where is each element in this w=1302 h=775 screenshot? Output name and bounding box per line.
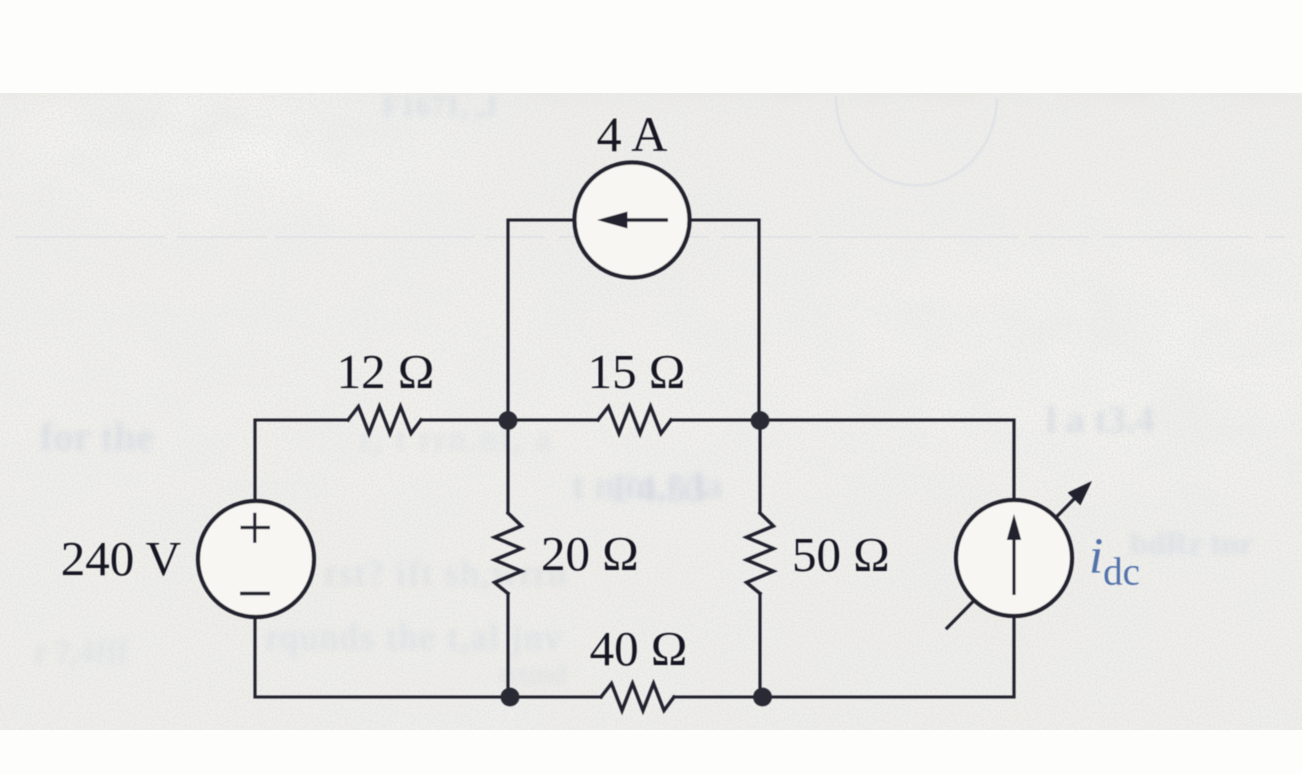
svg-text:l a t3.4: l a t3.4 xyxy=(1046,399,1155,441)
svg-text:bdRr tnr: bdRr tnr xyxy=(1130,525,1253,561)
resistor R2 15 ohm zigzag xyxy=(598,407,671,434)
svg-text:20 Ω: 20 Ω xyxy=(541,526,639,581)
svg-text:50 Ω: 50 Ω xyxy=(792,527,890,582)
voltage source V1 240V circle xyxy=(198,501,314,617)
plus sign of V1 xyxy=(241,513,271,543)
left-pointing arrow inside 4A source xyxy=(597,212,668,229)
current source I1 4A circle xyxy=(575,163,690,278)
svg-text:nu rst? ift sh,wrrn: nu rst? ift sh,wrrn xyxy=(274,553,568,593)
up-pointing arrow inside meter xyxy=(1007,514,1021,595)
svg-text:rqunds the t,al jnv: rqunds the t,al jnv xyxy=(266,617,564,657)
wire 4A source loop (up from node b, across, down to node c) xyxy=(508,220,759,420)
bleed-through line of previous figure xyxy=(15,236,1285,238)
svg-text:F1671, ,J: F1671, ,J xyxy=(382,90,498,123)
meter M1 circle xyxy=(956,500,1072,616)
bottom left junction dot xyxy=(501,688,520,707)
resistor R1 12 ohm zigzag xyxy=(348,407,421,434)
wire middle branch upper segment (node b down) xyxy=(506,420,509,513)
wire bottom rail left segment xyxy=(255,695,601,698)
bottom right junction dot xyxy=(753,688,772,707)
svg-text:240 V: 240 V xyxy=(61,531,181,586)
meter adjustment diagonal line xyxy=(947,499,1074,628)
svg-text:r ?,4fff: r ?,4fff xyxy=(35,634,129,671)
resistor R3 20 ohm zigzag xyxy=(495,513,522,594)
node b junction dot (top middle) xyxy=(499,411,518,430)
wire 50 ohm branch upper segment (node c down) xyxy=(758,420,761,513)
resistor R5 40 ohm zigzag xyxy=(601,684,674,711)
minus sign of V1 xyxy=(240,592,270,595)
svg-text:40 Ω: 40 Ω xyxy=(590,621,688,676)
wire top rail right segment (R2 to node c to meter branch corner) xyxy=(671,418,1014,421)
resistor R4 50 ohm zigzag xyxy=(747,513,774,594)
wire left branch through voltage source xyxy=(253,420,256,697)
node c junction dot (top right) xyxy=(751,411,770,430)
bleed-through circle arc of previous figure xyxy=(836,96,997,186)
svg-text:12 Ω: 12 Ω xyxy=(337,344,435,399)
bleed-through faint text artifacts xyxy=(35,90,1253,691)
svg-text:F4.53: F4.53 xyxy=(612,466,706,511)
wire middle branch lower segment xyxy=(506,594,509,698)
wire bottom rail right segment xyxy=(674,695,1014,698)
svg-text:15 Ω: 15 Ω xyxy=(588,344,686,399)
meter adjustment diagonal arrowhead xyxy=(1068,481,1092,505)
svg-text:4 A: 4 A xyxy=(597,106,668,162)
svg-text:for the: for the xyxy=(40,414,154,459)
wire right meter branch xyxy=(760,420,1014,697)
wire top rail left segment (node a to R1) xyxy=(255,418,348,421)
wire 50 ohm branch lower segment xyxy=(758,594,761,698)
wire top rail middle segment (R1 to node b to R2) xyxy=(421,418,598,421)
svg-text:rrtmd: rrtmd xyxy=(500,658,567,691)
